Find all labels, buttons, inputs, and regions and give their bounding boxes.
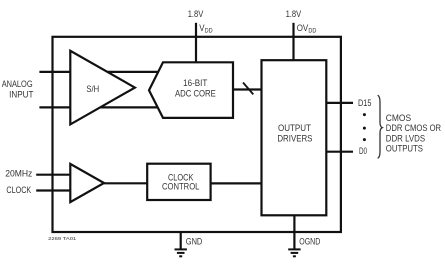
label: CLOCK CONTROL bbox=[162, 172, 200, 191]
label: CMOS DDR CMOS OR DDR LVDS OUTPUTS bbox=[386, 113, 441, 155]
svg-text:OUTPUT: OUTPUT bbox=[278, 123, 311, 133]
svg-text:2269 TA01: 2269 TA01 bbox=[48, 236, 76, 242]
ground symbol OGND bbox=[288, 249, 300, 256]
brace grouping outputs bbox=[378, 95, 383, 158]
svg-text:16-BIT: 16-BIT bbox=[183, 78, 207, 88]
svg-text:DRIVERS: DRIVERS bbox=[277, 133, 312, 143]
svg-text:DD: DD bbox=[205, 28, 213, 35]
bus width slash bbox=[243, 83, 253, 95]
block: output drivers bbox=[262, 60, 327, 215]
block: 16-bit ADC core hexagon bbox=[149, 62, 233, 118]
wire: analog input + into S/H and ADC core bbox=[39, 71, 159, 73]
op-amp: clock input buffer bbox=[70, 164, 104, 202]
svg-text:INPUT: INPUT bbox=[9, 90, 34, 100]
wire: D0 output bbox=[326, 151, 353, 153]
svg-text:ADC CORE: ADC CORE bbox=[175, 89, 216, 99]
label: 16-BIT ADC CORE bbox=[175, 78, 216, 99]
svg-text:1.8V: 1.8V bbox=[286, 9, 302, 19]
svg-text:CLOCK: CLOCK bbox=[6, 185, 31, 195]
wire: OVDD supply pin bbox=[292, 23, 294, 60]
svg-text:ANALOG: ANALOG bbox=[2, 79, 33, 89]
svg-text:DD: DD bbox=[308, 28, 316, 35]
svg-text:OUTPUTS: OUTPUTS bbox=[386, 144, 423, 155]
svg-text:OV: OV bbox=[297, 23, 309, 33]
label: OUTPUT DRIVERS bbox=[277, 123, 312, 144]
svg-text:S/H: S/H bbox=[86, 84, 99, 94]
svg-text:CONTROL: CONTROL bbox=[162, 182, 200, 192]
svg-text:20MHz: 20MHz bbox=[5, 169, 32, 179]
svg-text:GND: GND bbox=[186, 236, 203, 246]
wire: ADC core to output drivers bus bbox=[233, 88, 262, 90]
wire: GND pin bbox=[180, 232, 182, 249]
label: OVDD pin name bbox=[297, 23, 317, 35]
svg-text:D15: D15 bbox=[358, 98, 371, 108]
svg-text:D0: D0 bbox=[359, 146, 367, 156]
wire: clock input bottom bbox=[36, 189, 72, 191]
label: VDD pin name bbox=[199, 23, 212, 35]
wire: 20MHz clock input top bbox=[36, 174, 72, 176]
block: clock control bbox=[147, 164, 210, 200]
wire: clock control to output drivers bbox=[211, 182, 262, 184]
label: ANALOG INPUT bbox=[2, 79, 34, 100]
svg-text:1.8V: 1.8V bbox=[188, 9, 204, 19]
wire: analog input - into S/H and ADC core bbox=[39, 106, 158, 108]
op-amp: S/H sample-and-hold amplifier bbox=[70, 51, 135, 125]
wire: clock buffer to clock control bbox=[104, 182, 147, 184]
ground symbol GND bbox=[175, 249, 187, 256]
outer chip boundary box bbox=[53, 37, 341, 232]
ellipsis dots between D15 and D0 bbox=[363, 113, 366, 141]
wire: OGND pin bbox=[293, 215, 295, 249]
wire: D15 output bbox=[326, 102, 353, 104]
wire: VDD supply pin bbox=[195, 23, 197, 63]
svg-text:OGND: OGND bbox=[299, 236, 320, 246]
